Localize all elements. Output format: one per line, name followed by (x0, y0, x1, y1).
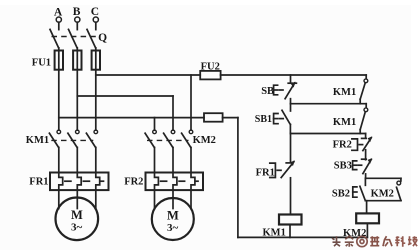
svg-text:SB: SB (261, 86, 274, 97)
svg-text:FR1: FR1 (256, 167, 275, 178)
svg-text:M: M (71, 208, 83, 222)
svg-text:KM2: KM2 (371, 189, 394, 200)
svg-text:FR2: FR2 (124, 176, 143, 187)
svg-text:Q: Q (98, 32, 107, 44)
svg-text:SB3: SB3 (334, 160, 352, 171)
svg-text:SB1: SB1 (255, 114, 272, 125)
svg-text:3~: 3~ (167, 222, 179, 234)
svg-text:M: M (167, 208, 179, 222)
svg-text:SB2: SB2 (332, 188, 350, 199)
svg-text:FR1: FR1 (29, 176, 48, 187)
svg-text:KM2: KM2 (193, 135, 216, 146)
svg-text:KM1: KM1 (333, 117, 356, 128)
svg-text:KM1: KM1 (333, 87, 356, 98)
svg-text:A: A (54, 6, 63, 18)
svg-text:KM1: KM1 (26, 135, 49, 146)
svg-text:FU1: FU1 (32, 57, 51, 68)
svg-text:B: B (73, 6, 81, 18)
svg-text:KM1: KM1 (263, 227, 286, 238)
svg-text:3~: 3~ (71, 222, 83, 234)
svg-text:FU2: FU2 (201, 62, 220, 73)
svg-text:FR2: FR2 (333, 140, 352, 151)
svg-text:C: C (91, 6, 99, 18)
